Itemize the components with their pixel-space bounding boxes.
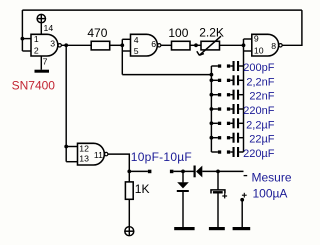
power +V symbol bottom: [125, 227, 134, 236]
op-amp U1b nand gate body pins 4,5,6: [131, 34, 161, 56]
ground under meter: [233, 227, 251, 230]
resistor R1 470: [91, 41, 110, 50]
node: cap bus feed junction: [210, 73, 214, 77]
node: meter plus terminal: [240, 198, 244, 202]
wire: gate1 output: [61, 44, 91, 46]
node: gate2 input junction: [120, 43, 124, 47]
terminal: meter minus: [244, 175, 248, 177]
wire: D2 to meter: [202, 170, 243, 172]
svg-text:10pF-10µF: 10pF-10µF: [131, 150, 192, 164]
svg-text:12: 12: [79, 143, 89, 153]
diode D1 shunt to ground: [177, 171, 189, 227]
svg-text:9: 9: [254, 34, 259, 44]
resistor R4 1K vertical: [125, 171, 133, 226]
svg-text:10: 10: [254, 46, 264, 56]
node: junction D1: [181, 170, 185, 174]
node: junction C8: [216, 170, 220, 174]
polarity plus of C8: [222, 194, 227, 199]
svg-text:22µF: 22µF: [249, 134, 275, 146]
svg-text:220nF: 220nF: [243, 105, 274, 117]
wire: gate3 pin10 stub: [244, 50, 252, 52]
wire: pin7 stub: [40, 56, 42, 70]
svg-text:8: 8: [271, 41, 276, 51]
capacitor C3 22nF row with selector contacts: [210, 90, 244, 100]
wire: R2 to potentiometer: [190, 44, 201, 46]
wire: left drop to gate1 inputs: [21, 10, 23, 51]
node: gate1 output junction: [64, 43, 68, 47]
wire: right terminal to diode junction: [173, 170, 193, 172]
svg-text:4: 4: [134, 35, 139, 45]
capacitor C5 2,2uF row with selector contacts: [210, 118, 244, 128]
ground under D1: [174, 227, 194, 230]
wire: pin14 stub: [40, 23, 42, 35]
op-amp U1a nand gate body SN7400 pins 1,2,3: [31, 34, 61, 56]
svg-text:22nF: 22nF: [249, 91, 274, 103]
node: gate3 input junction: [242, 43, 246, 47]
svg-text:2,2µF: 2,2µF: [246, 119, 275, 131]
wire: capacitor bank left bus: [210, 66, 212, 152]
node: gate4 input junction: [64, 145, 68, 149]
wire: pot to gate3 inputs: [220, 44, 244, 46]
svg-text:2,2nF: 2,2nF: [246, 76, 274, 88]
svg-text:6: 6: [151, 39, 156, 49]
capacitor C8 electrolytic: [211, 171, 225, 227]
capacitor C7 220uF row with selector contacts: [211, 147, 243, 157]
capacitor C4 220nF row with selector contacts: [210, 104, 244, 114]
capacitor C2 2,2nF row with selector contacts: [210, 75, 244, 85]
terminal: test socket left: [148, 170, 152, 174]
svg-text:5: 5: [134, 46, 139, 56]
wire: gate2 output: [161, 44, 172, 46]
svg-text:1: 1: [34, 34, 39, 44]
wire: gate2 pin5 stub: [122, 50, 130, 52]
node: junction output/1K: [127, 170, 131, 174]
node: gate1 input junction: [21, 37, 25, 41]
wire: gate2 pin4 stub: [122, 38, 130, 40]
capacitor C1 200pF row with selector contacts: [211, 61, 243, 71]
op-amp U1c nand gate body pins 9,10,8: [252, 34, 282, 56]
svg-text:2.2K: 2.2K: [199, 25, 224, 39]
svg-text:100: 100: [168, 26, 188, 40]
wire: feed to capacitor left bus: [122, 74, 211, 76]
ground under C8: [209, 227, 225, 230]
wire: meter plus to ground: [241, 200, 243, 227]
ground under gate1: [35, 70, 50, 73]
op-amp U1d nand gate body pins 12,13,11: [78, 143, 108, 165]
wire: gate1 pin1 stub: [22, 38, 31, 40]
svg-text:1K: 1K: [135, 182, 150, 196]
wire: gate4 pin12 stub: [66, 146, 77, 148]
wire: to left test terminal: [129, 170, 148, 172]
wire: gate4 output to test terminals: [108, 154, 129, 171]
wire: gate1 pin2 stub: [22, 50, 31, 52]
terminal: meter plus: [242, 193, 247, 198]
power +V symbol top: [37, 14, 45, 22]
svg-text:470: 470: [87, 26, 107, 40]
svg-text:200pF: 200pF: [243, 62, 274, 74]
wire: gate2 input tie bus and drop to cap bus: [121, 39, 123, 74]
wire: gate1 output down to gate4 inputs: [65, 45, 67, 161]
svg-text:Mesure: Mesure: [252, 171, 292, 185]
wire: top feedback rail: [22, 9, 302, 11]
wire: gate3 output to top-right corner: [282, 10, 302, 45]
terminal: test socket right: [170, 170, 174, 174]
wire: R1 to gate2 inputs: [110, 44, 123, 46]
svg-text:100µA: 100µA: [253, 186, 288, 200]
wire: gate3 pin9 stub: [244, 38, 252, 40]
resistor R2 100: [172, 41, 191, 50]
capacitor C6 22uF row with selector contacts: [210, 133, 244, 143]
wire: gate3 input tie bus joining capacitor right bus: [243, 39, 245, 152]
svg-text:2: 2: [34, 46, 39, 56]
node: junction R2/pot: [194, 43, 198, 47]
svg-text:13: 13: [79, 153, 89, 163]
diode D2 series: [194, 166, 203, 178]
svg-text:220µF: 220µF: [243, 148, 275, 160]
svg-text:14: 14: [44, 23, 54, 33]
svg-text:11: 11: [94, 150, 103, 160]
svg-text:7: 7: [43, 56, 48, 66]
svg-text:SN7400: SN7400: [12, 78, 56, 92]
svg-text:3: 3: [50, 38, 55, 48]
wire: gate4 pin13 stub: [66, 161, 77, 163]
potentiometer R3 2.2K: [197, 36, 221, 55]
